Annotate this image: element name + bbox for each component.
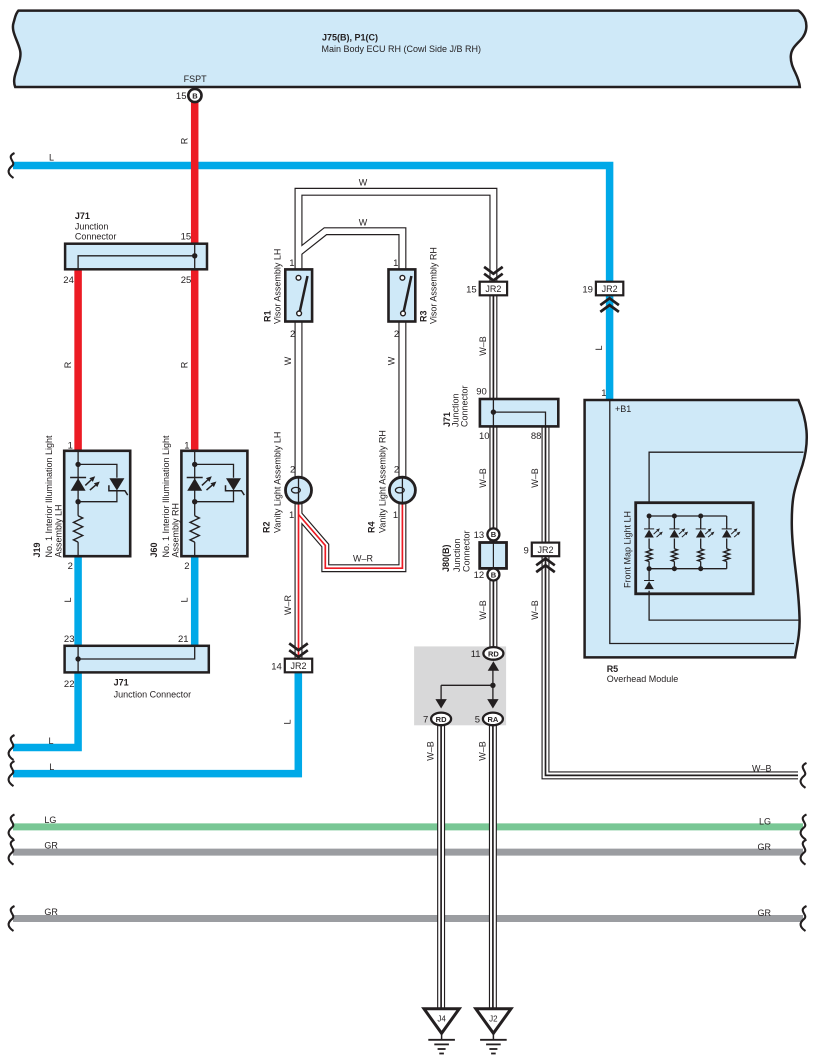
svg-text:R: R [180,361,190,368]
svg-text:2: 2 [290,464,295,475]
svg-text:88: 88 [531,431,542,442]
svg-text:Assembly RH: Assembly RH [170,503,180,558]
svg-text:Vanity Light Assembly LH: Vanity Light Assembly LH [273,432,283,533]
svg-text:GR: GR [758,908,772,918]
svg-text:B: B [192,91,198,100]
svg-text:JR2: JR2 [537,545,553,555]
svg-text:W–B: W–B [478,600,488,620]
svg-text:J80(B): J80(B) [441,544,451,572]
svg-text:5: 5 [475,715,480,726]
svg-text:2: 2 [394,464,399,475]
svg-text:L: L [180,597,190,602]
svg-text:W: W [359,177,368,187]
svg-text:25: 25 [181,275,192,286]
svg-text:LG: LG [759,817,771,827]
svg-text:10: 10 [479,431,490,442]
svg-text:W: W [359,217,368,227]
svg-text:J60: J60 [149,542,159,557]
svg-text:RD: RD [488,649,499,658]
svg-text:B: B [491,570,497,579]
svg-text:90: 90 [476,387,487,398]
svg-text:J71: J71 [75,211,90,221]
svg-text:JR2: JR2 [602,284,618,294]
svg-text:J4: J4 [437,1014,446,1023]
svg-text:14: 14 [271,662,282,673]
svg-text:Front Map Light LH: Front Map Light LH [623,511,633,588]
svg-text:W–B: W–B [478,468,488,488]
svg-text:R2: R2 [262,521,272,533]
svg-text:W–R: W–R [283,595,293,616]
svg-text:24: 24 [63,275,74,286]
svg-text:1: 1 [184,440,189,451]
svg-text:2: 2 [290,329,295,340]
svg-text:R: R [63,361,73,368]
svg-text:RA: RA [487,715,498,724]
svg-text:W–R: W–R [353,554,374,564]
svg-text:Connector: Connector [460,385,470,427]
svg-text:R1: R1 [263,310,273,322]
svg-text:1: 1 [393,258,398,269]
svg-text:22: 22 [64,679,75,690]
svg-text:R: R [180,137,190,144]
svg-text:1: 1 [289,510,294,521]
svg-text:LG: LG [44,815,56,825]
svg-text:GR: GR [44,841,58,851]
svg-text:W–B: W–B [426,741,436,761]
svg-text:12: 12 [474,570,485,581]
svg-text:Junction: Junction [452,538,462,572]
svg-text:15: 15 [176,91,187,102]
svg-text:Visor Assembly LH: Visor Assembly LH [273,249,283,324]
svg-text:JR2: JR2 [290,661,306,671]
svg-text:W: W [283,356,293,365]
svg-text:W–B: W–B [478,336,488,356]
svg-text:RD: RD [436,715,447,724]
svg-text:J2: J2 [489,1014,498,1023]
svg-text:13: 13 [474,530,485,541]
svg-text:2: 2 [68,561,73,572]
svg-text:GR: GR [44,907,58,917]
svg-text:L: L [63,597,73,602]
svg-text:L: L [49,736,54,746]
svg-text:+B1: +B1 [615,404,631,414]
svg-text:Overhead Module: Overhead Module [607,674,679,684]
svg-text:15: 15 [181,232,192,243]
svg-text:Assembly LH: Assembly LH [54,504,64,557]
svg-text:19: 19 [582,285,593,296]
svg-text:1: 1 [289,258,294,269]
svg-text:L: L [49,153,54,163]
svg-text:L: L [594,345,604,350]
svg-text:W–B: W–B [530,600,540,620]
svg-text:Visor Assembly RH: Visor Assembly RH [429,247,439,324]
svg-text:Junction Connector: Junction Connector [114,689,192,699]
svg-text:1: 1 [601,388,606,399]
svg-text:23: 23 [64,634,75,645]
svg-text:7: 7 [423,715,428,726]
svg-text:L: L [283,719,293,724]
svg-text:J71: J71 [114,678,129,688]
svg-text:Connector: Connector [75,232,117,242]
svg-text:15: 15 [466,285,477,296]
svg-text:W–B: W–B [477,741,487,761]
svg-text:Connector: Connector [462,530,472,572]
svg-text:Junction: Junction [75,221,109,231]
svg-text:No. 1 Interior Illumination Li: No. 1 Interior Illumination Light [44,435,54,558]
svg-text:W–B: W–B [752,763,772,773]
svg-text:R4: R4 [367,521,377,533]
svg-text:B: B [491,530,497,539]
svg-text:2: 2 [184,561,189,572]
svg-text:Main Body ECU RH (Cowl Side J/: Main Body ECU RH (Cowl Side J/B RH) [322,44,482,54]
svg-text:GR: GR [758,842,772,852]
svg-text:1: 1 [393,510,398,521]
svg-text:11: 11 [471,649,481,660]
svg-text:2: 2 [394,329,399,340]
svg-text:R3: R3 [419,310,429,322]
svg-text:R5: R5 [607,664,619,674]
svg-text:21: 21 [178,634,189,645]
svg-text:J19: J19 [32,542,42,557]
svg-text:1: 1 [68,440,73,451]
svg-text:No. 1 Interior Illumination Li: No. 1 Interior Illumination Light [161,435,171,558]
svg-text:J75(B), P1(C): J75(B), P1(C) [322,33,378,43]
svg-text:9: 9 [524,545,529,556]
svg-text:W–B: W–B [530,468,540,488]
svg-text:W: W [386,356,396,365]
svg-text:FSPT: FSPT [184,74,208,84]
svg-text:Vanity Light Assembly RH: Vanity Light Assembly RH [378,430,388,533]
svg-text:JR2: JR2 [485,284,501,294]
svg-text:L: L [49,762,54,772]
